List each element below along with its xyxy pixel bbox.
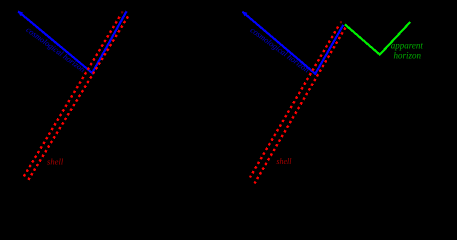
svg-text:apparent: apparent — [391, 41, 424, 51]
arrowhead of cosmological horizon (right panel) — [242, 11, 248, 16]
shell dashed line left (right panel, red) — [250, 27, 338, 178]
svg-text:horizon: horizon — [394, 50, 422, 60]
shell dashed line right (left panel, red) — [28, 16, 128, 181]
svg-text:shell: shell — [276, 157, 292, 166]
shell dashed line right (right panel, red) — [255, 28, 346, 184]
arrowhead of cosmological horizon (left panel) — [18, 11, 24, 16]
cosmological horizon V-line (right panel, blue) — [242, 12, 343, 74]
svg-text:shell: shell — [47, 156, 64, 166]
faint end dash of left shell line (right panel) — [340, 21, 342, 23]
apparent horizon V-line (right panel, green) — [345, 22, 410, 55]
shell dashed line left (left panel, red) — [24, 17, 120, 177]
cosmological horizon V-line (left panel, blue) — [18, 11, 126, 73]
faint end dash of left shell line (left panel) — [121, 11, 123, 13]
